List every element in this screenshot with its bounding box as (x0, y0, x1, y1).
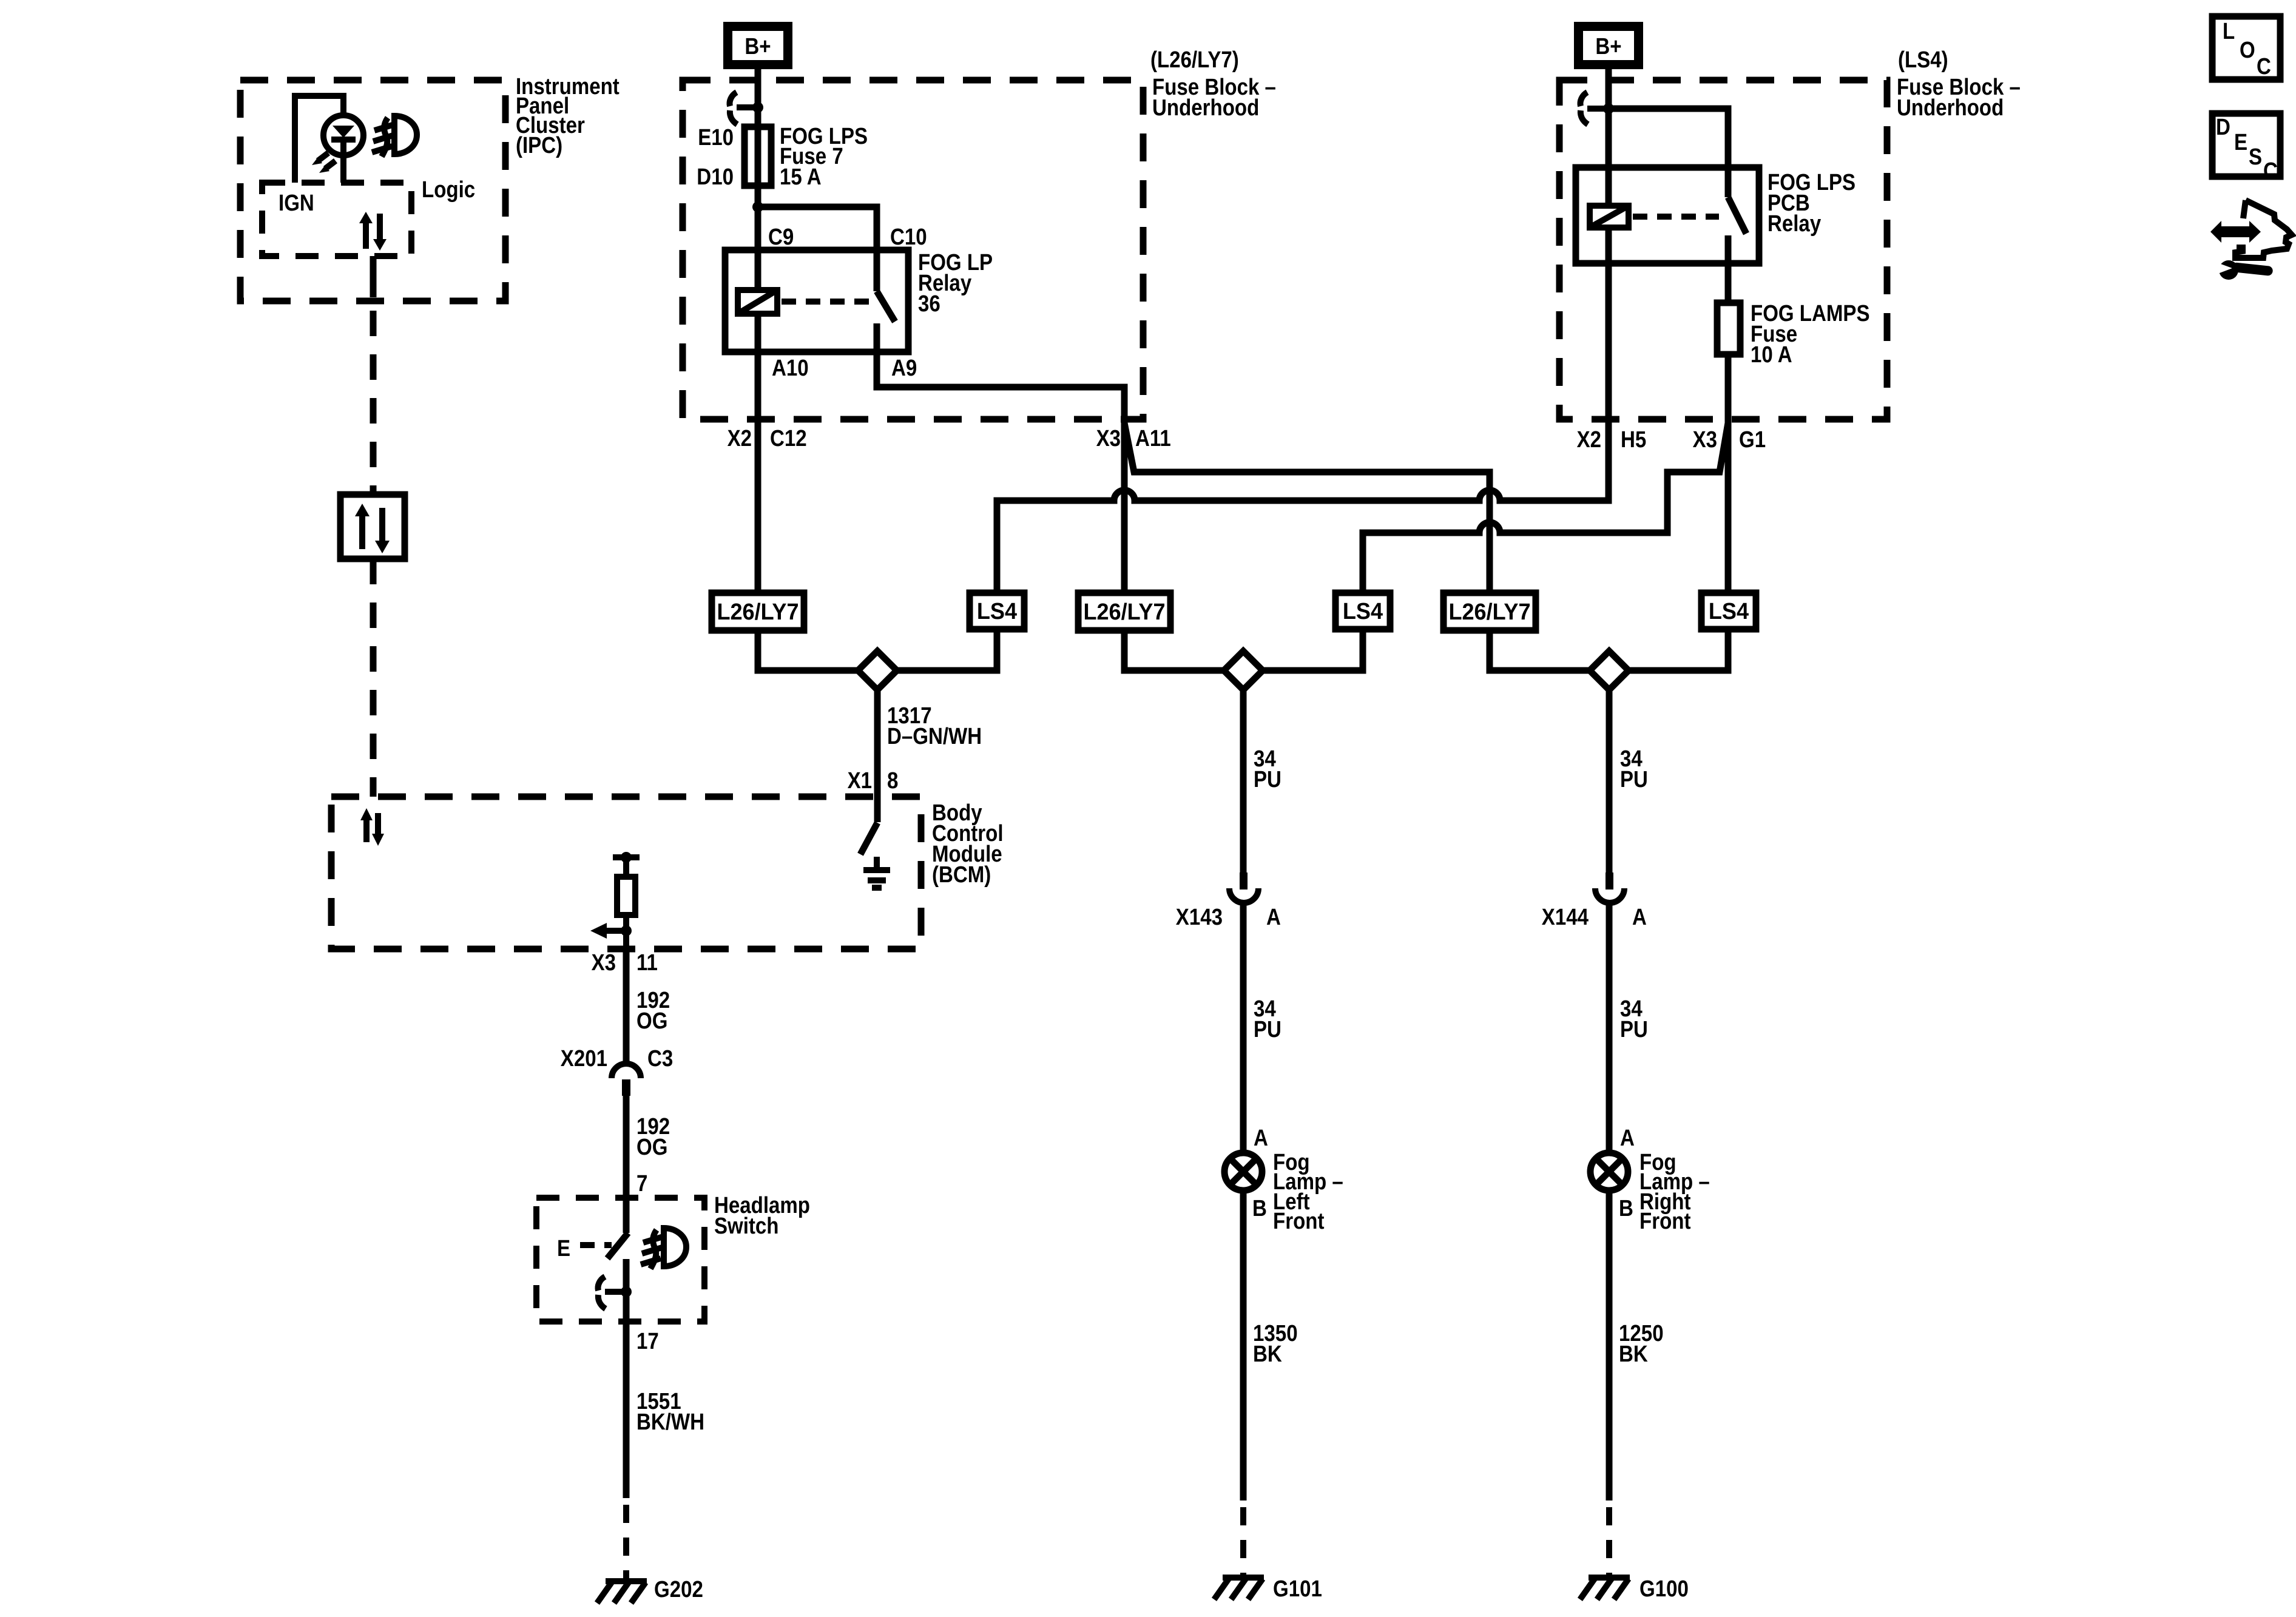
wire A11 branch to right L26/LY7 tag (1124, 423, 1490, 593)
power feed B+ (left, L26/LY7 fuse block) (723, 22, 792, 69)
wire 34 PU X144 to fog lamp right (1606, 904, 1613, 1153)
svg-text:L26/LY7: L26/LY7 (1448, 599, 1530, 625)
BCM fog lamp driver (613, 852, 640, 949)
svg-text:X143: X143 (1176, 905, 1223, 930)
junction diamond (column 3) (1590, 651, 1629, 690)
junction diamond (column 1) (858, 651, 897, 690)
wire L26/LY7 tag to junction diamond (column 1) (758, 630, 859, 670)
svg-text:L: L (2223, 19, 2235, 44)
svg-text:(BCM): (BCM) (932, 862, 991, 888)
navigation icon LOC box (2212, 16, 2280, 79)
wire label 34 PU (column 3 upper) (1620, 746, 1648, 792)
svg-text:D10: D10 (697, 164, 734, 190)
BCM driver output arrow (590, 923, 632, 939)
junction dot below fuse (left) (752, 201, 763, 212)
module BCM (Body Control Module) dashed box (331, 797, 1004, 949)
switch terminal clip (598, 1277, 626, 1309)
wire clip to fuse E10 (755, 107, 761, 207)
wire label 192 OG (upper) (636, 988, 670, 1034)
svg-text:Front: Front (1273, 1209, 1325, 1234)
relay switch blade (right relay) (1728, 197, 1746, 234)
engine option tag LS4 (column 1) (970, 593, 1024, 629)
logic block (IPC Logic) dashed box (262, 177, 475, 256)
svg-text:D–GN/WH: D–GN/WH (887, 724, 982, 749)
svg-text:D: D (2216, 115, 2230, 140)
svg-text:Switch: Switch (714, 1214, 779, 1239)
svg-text:PU: PU (1620, 767, 1648, 792)
svg-text:B+: B+ (745, 34, 771, 59)
svg-text:C10: C10 (890, 224, 927, 250)
wire label 1317 D-GN/WH (887, 703, 982, 749)
wire H5 to left LS4 tag (with crossover hops) (997, 419, 1609, 593)
svg-text:LS4: LS4 (1343, 599, 1383, 624)
wire C12 to L26/LY7 tag (755, 419, 761, 593)
svg-text:A: A (1632, 905, 1647, 930)
svg-text:LS4: LS4 (1709, 599, 1749, 624)
svg-text:Relay: Relay (1768, 211, 1821, 237)
svg-text:Underhood: Underhood (1152, 95, 1259, 121)
svg-text:A11: A11 (1135, 426, 1171, 451)
mechanical link dashes (E to blade) (580, 1242, 612, 1248)
wire 34 PU diamond to X144 (1606, 690, 1613, 873)
wire IPC logic output stem (370, 256, 377, 297)
svg-text:L26/LY7: L26/LY7 (717, 599, 799, 625)
dashed wire to ground G100 (1606, 1507, 1612, 1578)
svg-text:B: B (1619, 1196, 1633, 1221)
fuse block right (LS4) Fuse Block - Underhood dashed box (1559, 47, 2021, 419)
relay coil-to-contact dashed link (right relay) (1633, 214, 1719, 220)
svg-text:H5: H5 (1621, 427, 1646, 453)
engine option tag LS4 (column 3) (1701, 593, 1756, 629)
wire relay A9 to X3 A11 exit (877, 323, 1124, 419)
relay switch blade (left relay) (877, 291, 895, 322)
wire fuse to X3 G1 exit (1725, 354, 1732, 419)
svg-text:PU: PU (1620, 1017, 1648, 1042)
fog lamp left front bulb (1224, 1150, 1343, 1234)
ground G100 (1580, 1576, 1689, 1602)
fog lamp right front bulb (1590, 1150, 1710, 1234)
svg-text:BK/WH: BK/WH (636, 1409, 704, 1435)
wire label 34 PU (column 2 upper) (1254, 746, 1281, 792)
wire G1 branch to middle LS4 tag (with crossover hop) (1363, 423, 1728, 593)
fuse block terminal clip (left) (729, 92, 758, 124)
junction dot at B+ clip (right) (1603, 103, 1614, 114)
svg-text:7: 7 (636, 1171, 647, 1197)
data link interface box (340, 495, 405, 559)
engine option tag LS4 (column 2) (1335, 593, 1390, 629)
svg-text:X201: X201 (561, 1046, 607, 1072)
wire label 1551 BK/WH (636, 1389, 704, 1435)
wire G1 down to right LS4 tag (1725, 419, 1732, 593)
fog lamps symbol (IPC) (372, 116, 417, 157)
svg-text:O: O (2240, 38, 2255, 63)
wire 1551 BK/WH switch to G202 (623, 1322, 630, 1498)
svg-text:B: B (1252, 1196, 1267, 1221)
svg-text:36: 36 (918, 291, 940, 317)
fuse block left (L26/LY7) Fuse Block - Underhood dashed box (683, 47, 1276, 419)
dashed wire to ground G101 (1240, 1507, 1246, 1578)
junction diamond (column 2) (1224, 651, 1263, 690)
svg-text:15 A: 15 A (780, 164, 822, 190)
svg-text:PU: PU (1254, 767, 1281, 792)
wire 1317 diamond to BCM X1-8 (874, 690, 881, 822)
svg-text:X3: X3 (1096, 426, 1121, 451)
relay coil-to-contact dashed link (left relay) (782, 299, 873, 305)
headlamp switch dashed box (536, 1193, 810, 1322)
svg-text:OG: OG (636, 1008, 667, 1034)
svg-text:S: S (2249, 144, 2262, 170)
headlamp switch blade (607, 1233, 628, 1258)
svg-text:X144: X144 (1542, 905, 1589, 930)
wire junction to relay switch C10 (758, 207, 877, 291)
svg-text:X2: X2 (728, 426, 752, 451)
svg-text:C9: C9 (768, 224, 794, 250)
svg-text:B+: B+ (1595, 34, 1621, 59)
relay coil (right relay) (1590, 206, 1629, 228)
svg-text:E10: E10 (698, 125, 734, 150)
svg-text:C12: C12 (770, 426, 807, 451)
svg-text:G101: G101 (1273, 1576, 1322, 1602)
wire 34 PU X143 to fog lamp left (1240, 904, 1247, 1153)
svg-text:10 A: 10 A (1751, 342, 1792, 368)
svg-text:G202: G202 (654, 1577, 703, 1602)
svg-text:X1: X1 (848, 768, 872, 794)
wire relay contact to fuse (right) (1725, 235, 1732, 303)
svg-text:X3: X3 (1693, 427, 1717, 453)
svg-text:E: E (557, 1236, 570, 1261)
svg-text:IGN: IGN (279, 191, 314, 216)
svg-text:A: A (1254, 1126, 1268, 1151)
dashed wire to ground G202 (623, 1505, 629, 1581)
svg-text:A10: A10 (772, 356, 809, 381)
relay coil (left relay) (738, 290, 777, 314)
wire label 1250 BK (1619, 1321, 1664, 1367)
wire A11 down to L26/LY7 tag (1121, 419, 1128, 593)
serial data link interface to BCM (dashed wire) (370, 559, 377, 797)
junction dot (switch clip) (621, 1286, 632, 1297)
navigation icon hand with arrow and wrench (2210, 200, 2292, 280)
engine option tag L26/LY7 (column 1) (712, 593, 804, 630)
svg-text:G100: G100 (1639, 1576, 1689, 1602)
relay FOG LPS PCB Relay (1576, 167, 1855, 263)
svg-text:Logic: Logic (422, 177, 475, 203)
navigation icon DESC box (2212, 113, 2280, 184)
wire label 34 PU (column 3 lower) (1620, 996, 1648, 1042)
switch lower contact wire (623, 1259, 630, 1322)
svg-text:PU: PU (1254, 1017, 1281, 1042)
ground G202 (597, 1577, 703, 1603)
connector X144 A (1542, 873, 1647, 930)
svg-text:A: A (1620, 1126, 1635, 1151)
svg-text:OG: OG (636, 1135, 667, 1160)
svg-text:X2: X2 (1577, 427, 1601, 453)
wire coil through relay (left) (755, 207, 761, 290)
connector X201 C3 (561, 1046, 674, 1096)
fuse block terminal clip (right) (1580, 92, 1609, 124)
wire LS4 tag to junction diamond (column 2) (1261, 629, 1363, 670)
wire junction to relay switch (right) (1609, 109, 1728, 197)
BCM internal switch blade (860, 823, 877, 854)
bidirectional data arrows (IPC logic) (359, 212, 387, 251)
wire 34 PU diamond to X143 (1240, 690, 1247, 873)
wire LS4 tag to junction diamond (column 1) (896, 629, 997, 670)
ground G101 (1214, 1576, 1322, 1602)
wire coil through relay (right) (1606, 109, 1612, 206)
wire label 192 OG (lower) (636, 1114, 670, 1160)
junction dot at B+ clip (left) (752, 102, 763, 113)
relay FOG LP Relay 36 (725, 250, 993, 352)
ground (BCM internal) (863, 857, 890, 888)
svg-text:Underhood: Underhood (1897, 95, 2004, 121)
engine option tag L26/LY7 (column 3) (1443, 593, 1536, 630)
module IPC (Instrument Panel Cluster) dashed box (240, 74, 620, 301)
svg-text:BK: BK (1253, 1342, 1282, 1367)
wire B+ to fuse block (right) (1606, 69, 1612, 109)
svg-text:LS4: LS4 (977, 599, 1017, 624)
wire into headlamp switch (623, 1198, 630, 1233)
engine option tag L26/LY7 (column 2) (1078, 593, 1170, 630)
svg-text:A9: A9 (891, 356, 917, 381)
svg-text:A: A (1266, 905, 1281, 930)
wire L26/LY7 tag to junction diamond (column 3) (1490, 630, 1591, 670)
svg-text:L26/LY7: L26/LY7 (1083, 599, 1165, 625)
wire BCM X3-11 to connector X201 (623, 949, 630, 1064)
wire B+ to fuse block (left) (755, 69, 761, 107)
svg-text:8: 8 (887, 768, 898, 794)
svg-text:X3: X3 (592, 950, 616, 976)
wire label 1350 BK (1253, 1321, 1298, 1367)
svg-text:(IPC): (IPC) (516, 133, 562, 158)
svg-text:17: 17 (636, 1329, 659, 1354)
svg-text:BK: BK (1619, 1342, 1648, 1367)
svg-text:(L26/LY7): (L26/LY7) (1150, 47, 1239, 73)
wire 1350 BK fog lamp left to G101 (1240, 1190, 1247, 1501)
fog lamps symbol (headlamp switch) (641, 1228, 686, 1269)
wire 1250 BK fog lamp right to G100 (1606, 1190, 1613, 1501)
svg-text:11: 11 (636, 950, 658, 976)
connector X143 A (1176, 873, 1281, 930)
wire label 34 PU (column 2 lower) (1254, 996, 1281, 1042)
fuse FOG LAMPS Fuse 10 A (1717, 301, 1870, 368)
serial data link IPC to interface (dashed wire) (370, 311, 377, 495)
fuse FOG LPS Fuse 7 15 A (745, 124, 868, 190)
fog lamp indicator LED (IPC) (295, 96, 363, 183)
svg-text:(LS4): (LS4) (1898, 47, 1948, 73)
wire LS4 tag to junction diamond (column 3) (1627, 629, 1728, 670)
wire X201 to headlamp switch (623, 1096, 630, 1198)
svg-text:C: C (2263, 158, 2278, 184)
bidirectional data arrows (BCM) (360, 808, 384, 846)
svg-text:G1: G1 (1739, 427, 1766, 453)
svg-text:C3: C3 (647, 1046, 673, 1072)
power feed B+ (right, LS4 fuse block) (1574, 22, 1643, 69)
svg-text:C: C (2257, 54, 2271, 79)
svg-text:E: E (2234, 130, 2247, 155)
wire L26/LY7 tag to junction diamond (column 2) (1124, 630, 1225, 670)
svg-text:Front: Front (1639, 1209, 1691, 1234)
